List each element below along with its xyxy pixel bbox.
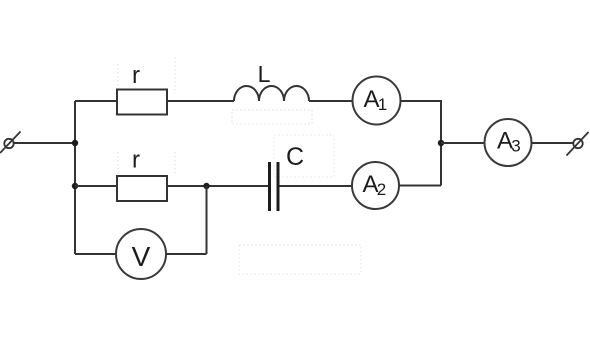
svg-text:2: 2 (377, 180, 386, 199)
wire R1 to L (167, 100, 234, 102)
wire V to vertical riser (166, 253, 207, 255)
wire vertical riser to middle branch (206, 186, 208, 254)
ammeter A2 (352, 162, 399, 209)
ammeter A1 (353, 77, 401, 125)
faint dotted remnant box around capacitor label (274, 135, 334, 177)
resistor r (middle) (117, 176, 167, 201)
wire A3 to right terminal (532, 142, 574, 144)
svg-text:r: r (132, 62, 140, 89)
faint dotted remnant box around middle resistor label (118, 152, 175, 176)
wire input to left rail (14, 142, 75, 144)
wire A1 to right rail (401, 100, 442, 102)
terminal T1 (left input) (0, 132, 21, 154)
svg-text:3: 3 (511, 136, 520, 155)
capacitor C (270, 162, 279, 211)
voltmeter V (116, 229, 166, 279)
node right rail junction (438, 140, 444, 146)
svg-text:V: V (132, 241, 151, 272)
faint dotted remnant box below voltmeter row (239, 245, 361, 274)
wire capacitor to A2 (280, 185, 353, 187)
svg-text:r: r (132, 147, 140, 174)
node V-branch right junction (203, 183, 209, 189)
ammeter A3 (485, 119, 532, 166)
wire L to A1 (309, 100, 353, 102)
node left-top junction (72, 140, 78, 146)
wire A2 to right rail (399, 185, 441, 187)
resistor r (top) (117, 90, 167, 115)
wire top branch: rail to R1 (75, 100, 117, 102)
wire rail junction to A3 (441, 142, 485, 144)
wire right vertical rail (440, 100, 442, 186)
svg-text:L: L (258, 61, 271, 87)
svg-text:1: 1 (378, 95, 387, 114)
faint dotted remnant box under inductor (232, 110, 312, 124)
svg-text:C: C (286, 143, 304, 171)
faint dotted remnant box around top resistor label (118, 57, 175, 90)
node left-middle junction (72, 183, 78, 189)
wire V branch bottom: rail to V (75, 253, 116, 255)
wire left vertical rail (74, 101, 76, 254)
terminal T2 (right output) (567, 132, 589, 156)
inductor L (234, 86, 309, 101)
wire middle branch: rail to R2 (75, 185, 117, 187)
wire R2 to capacitor (167, 185, 268, 187)
